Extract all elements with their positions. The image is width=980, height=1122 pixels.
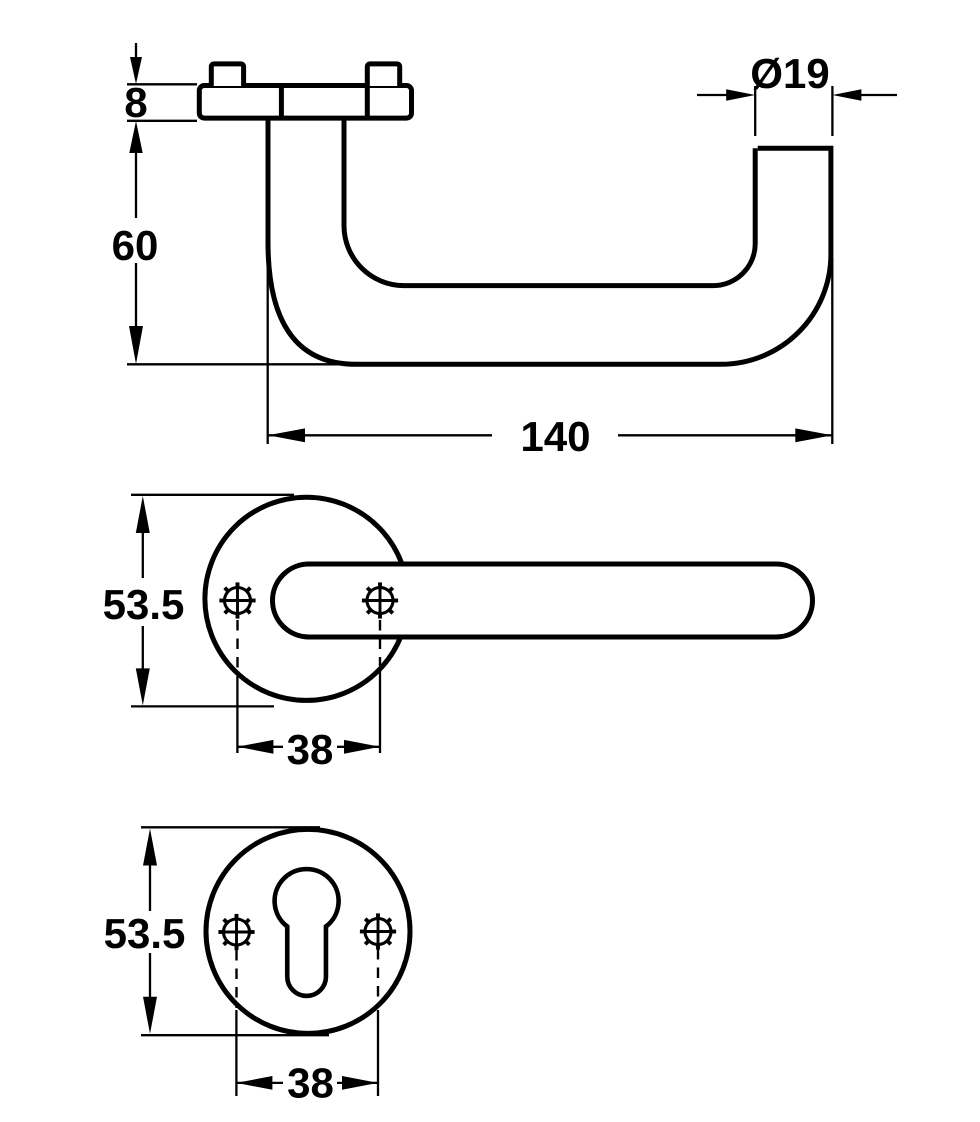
arrowhead left (dim 38 bottom) <box>236 1076 272 1090</box>
extension line circle bottom (dim 53.5 bottom) <box>141 1034 329 1036</box>
dim line 53.5 upper segment (bottom) <box>149 862 151 911</box>
arrowhead right (dim 38 bottom) <box>342 1076 378 1090</box>
arrowhead toward dia19 right ext <box>832 89 861 101</box>
right spindle tab <box>367 64 399 86</box>
arrowhead left (dim 38 middle) <box>237 740 273 754</box>
dashed centerline left (bottom) <box>235 950 237 1008</box>
arrowhead down to plate top (dim 8) <box>130 57 142 84</box>
dimension label 8 (text8) <box>126 88 147 118</box>
dim line 53.5 upper segment (middle) <box>142 530 144 578</box>
dim line dia19 left tail <box>697 94 729 96</box>
lever front view <box>273 564 813 637</box>
handle inner profile <box>344 118 755 286</box>
plate divider line 2 <box>365 86 370 118</box>
dim line 38 right segment (middle) <box>337 746 380 748</box>
dim line dia19 right tail <box>861 94 897 96</box>
dim line 38 right segment (bottom) <box>337 1082 378 1084</box>
extension line left (dim 140) <box>267 246 269 444</box>
arrowhead up to circle top (dim 53.5 bottom) <box>143 829 157 866</box>
extension line right (dim 38 bottom) <box>377 1010 379 1096</box>
extension line plate bottom (dim 8) <box>127 120 197 122</box>
extension line circle top (dim 53.5 middle) <box>131 494 294 496</box>
arrowhead up to plate bottom (dim 8/60) <box>129 121 142 153</box>
dim line 60 lower segment <box>135 263 137 332</box>
dim line 53.5 lower segment (middle) <box>142 626 144 673</box>
dimension label 53.5 (text535mid) <box>104 590 183 620</box>
dimension label 60 (text60) <box>113 231 156 261</box>
extension line circle top (dim 53.5 bottom) <box>141 826 320 828</box>
plate divider line 1 <box>279 86 284 119</box>
screw symbol left (bottom) <box>218 914 254 950</box>
dim line 60 upper segment <box>135 149 137 218</box>
dimension label 38 (text38bot) <box>288 1068 332 1098</box>
dashed centerline right (bottom) <box>377 949 379 1007</box>
extension line left (dim 38 bottom) <box>235 1010 237 1096</box>
dim line 53.5 lower segment (bottom) <box>149 953 151 1000</box>
arrowhead down to circle bottom (dim 53.5 bottom) <box>143 997 157 1034</box>
extension line left (dim 38 middle) <box>236 676 238 753</box>
screw symbol left (middle) <box>219 582 255 618</box>
extension line circle bottom (dim 53.5 middle) <box>131 705 274 707</box>
extension line handle bottom (dim 60) <box>127 363 357 365</box>
dimension label 140 (text140) <box>523 422 589 452</box>
arrowhead toward dia19 left ext <box>726 89 755 101</box>
rose circle <box>205 497 408 700</box>
dashed centerline left (middle) <box>236 620 238 671</box>
dim line tail above top arrow <box>135 43 137 60</box>
euro profile cylinder hole <box>275 869 339 996</box>
extension line left (dim dia19) <box>754 86 756 136</box>
dim line 140 left segment <box>268 434 492 436</box>
extension line right (dim 38 middle) <box>379 669 381 753</box>
dim line 38 left segment (middle) <box>237 746 283 748</box>
arrowhead right (dim 38 middle) <box>344 740 380 754</box>
left spindle tab <box>211 64 243 86</box>
extension line right (dim 140) <box>831 258 833 444</box>
dimension label 38 (text38mid) <box>288 735 332 765</box>
escutcheon circle <box>206 829 410 1033</box>
arrowhead left (dim 140) <box>268 428 305 442</box>
extension line plate top (dim 8) <box>127 83 197 85</box>
dimension label Ø19 (textdia19) <box>752 58 828 90</box>
dim line 38 left segment (bottom) <box>236 1082 283 1084</box>
dim line 140 right segment <box>618 434 832 436</box>
arrowhead down to handle bottom (dim 60) <box>129 326 143 364</box>
mounting plate <box>199 86 411 119</box>
dimension label 53.5 (text535bot) <box>105 919 184 949</box>
extension line right (dim dia19) <box>831 86 833 136</box>
arrowhead down to circle bottom (dim 53.5 middle) <box>136 668 150 705</box>
handle outer profile <box>268 118 831 364</box>
arrowhead up to circle top (dim 53.5 middle) <box>136 496 150 533</box>
arrowhead right (dim 140) <box>795 428 832 442</box>
screw symbol right (bottom) <box>360 913 396 949</box>
screw symbol right (middle) <box>362 582 398 618</box>
dashed centerline right (middle) <box>379 620 381 666</box>
